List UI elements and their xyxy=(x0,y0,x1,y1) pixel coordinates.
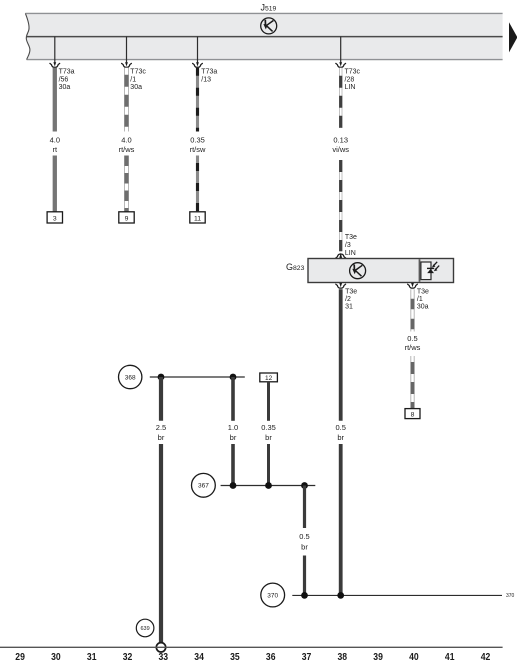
continuation arrow (right) xyxy=(509,22,517,52)
svg-text:37: 37 xyxy=(302,652,312,661)
svg-text:31: 31 xyxy=(345,304,353,311)
svg-text:9: 9 xyxy=(125,216,129,223)
svg-text:32: 32 xyxy=(123,652,133,661)
wire 0.5 br from G823 (solid) xyxy=(339,289,343,421)
svg-text:42: 42 xyxy=(481,652,491,661)
ground node 370 xyxy=(261,583,285,607)
svg-text:38: 38 xyxy=(338,652,348,661)
connection box 3 xyxy=(47,212,62,223)
svg-text:3: 3 xyxy=(53,216,57,223)
svg-text:rt/sw: rt/sw xyxy=(190,145,206,154)
svg-text:39: 39 xyxy=(373,652,383,661)
svg-text:br: br xyxy=(337,433,344,442)
svg-text:T3e: T3e xyxy=(345,289,357,296)
bus bar J519 xyxy=(25,13,502,59)
ground node 639 xyxy=(136,619,154,637)
svg-text:rt: rt xyxy=(53,145,58,154)
junction on 367 rail (track 35) xyxy=(230,482,237,489)
svg-text:30a: 30a xyxy=(59,84,71,91)
svg-text:br: br xyxy=(230,433,237,442)
connection box 12 xyxy=(260,373,278,382)
svg-text:br: br xyxy=(301,543,308,552)
bus bar top border xyxy=(25,12,502,14)
wire 1.0 br (solid) xyxy=(231,377,235,421)
svg-text:0.5: 0.5 xyxy=(299,532,309,541)
junction on 368 rail (track 33) xyxy=(158,374,165,381)
wire stub from bus, track 34 xyxy=(197,37,199,63)
svg-text:30a: 30a xyxy=(417,304,429,311)
wire 0.5 rt/ws (dashed) xyxy=(411,289,415,408)
svg-text:/3: /3 xyxy=(345,242,351,249)
svg-text:0.13: 0.13 xyxy=(333,136,348,145)
wire 367 rail xyxy=(221,485,316,487)
svg-text:36: 36 xyxy=(266,652,276,661)
svg-text:0.35: 0.35 xyxy=(190,136,205,145)
svg-text:/1: /1 xyxy=(130,76,136,83)
svg-text:0.5: 0.5 xyxy=(407,334,417,343)
terminal T73c/28 LIN xyxy=(336,62,346,67)
connection box 11 xyxy=(190,212,205,223)
svg-text:639: 639 xyxy=(141,626,150,632)
svg-text:/56: /56 xyxy=(59,76,69,83)
terminal T3e/2 (below G823) xyxy=(336,283,346,288)
wire 4.0 rt/ws (dashed) xyxy=(124,68,128,212)
svg-text:2.5: 2.5 xyxy=(156,423,166,432)
ground node 368 xyxy=(119,365,142,388)
svg-text:/13: /13 xyxy=(201,76,211,83)
svg-text:0.5: 0.5 xyxy=(335,423,345,432)
connection box 9 xyxy=(119,212,134,223)
svg-text:12: 12 xyxy=(265,375,273,382)
G823 sensor cell box xyxy=(421,262,431,280)
svg-text:30: 30 xyxy=(51,652,61,661)
terminal T73c/1 xyxy=(122,62,132,67)
svg-text:29: 29 xyxy=(15,652,25,661)
svg-text:368: 368 xyxy=(125,374,136,381)
wire 0.35 br (solid) xyxy=(267,382,270,421)
terminal T3e/1 (below G823) xyxy=(408,283,418,288)
wire 0.35 rt/sw (dashed) xyxy=(196,68,199,212)
G823 internal divider xyxy=(419,259,421,282)
wire stub from bus, track 30 xyxy=(54,37,56,63)
track numbers xyxy=(15,652,490,661)
svg-text:rt/ws: rt/ws xyxy=(405,343,421,352)
wire 370 rail xyxy=(292,594,502,596)
photodiode symbol xyxy=(427,262,439,273)
wire stub from bus, track 32 xyxy=(126,37,128,63)
junction on 368 rail (track 35) xyxy=(230,374,237,381)
wire 4.0 rt (solid) xyxy=(53,68,57,132)
svg-text:4.0: 4.0 xyxy=(50,136,60,145)
junction on 367 rail (track 37) xyxy=(301,482,308,489)
bus bar bottom border xyxy=(27,59,503,61)
svg-text:0.35: 0.35 xyxy=(261,423,276,432)
svg-text:41: 41 xyxy=(445,652,455,661)
wire 368 rail xyxy=(150,376,245,378)
junction on 367 rail (track 36) xyxy=(265,482,272,489)
svg-text:370: 370 xyxy=(267,592,278,599)
ground terminal (open circle) xyxy=(156,643,165,652)
svg-text:/1: /1 xyxy=(417,296,423,303)
svg-text:LIN: LIN xyxy=(345,250,356,257)
svg-text:vi/ws: vi/ws xyxy=(332,145,349,154)
svg-text:30a: 30a xyxy=(130,84,142,91)
svg-text:8: 8 xyxy=(411,411,415,418)
svg-text:LIN: LIN xyxy=(345,84,356,91)
ground node 367 xyxy=(192,473,216,497)
svg-text:/2: /2 xyxy=(345,296,351,303)
sensor G823 body xyxy=(308,259,454,283)
svg-text:11: 11 xyxy=(194,216,201,223)
junction on 370 rail (track 37) xyxy=(301,592,308,599)
svg-text:1.0: 1.0 xyxy=(228,423,238,432)
svg-text:G823: G823 xyxy=(286,262,305,272)
junction on 370 rail (track 38) xyxy=(337,592,344,599)
svg-text:34: 34 xyxy=(194,652,204,661)
terminal T73a/13 xyxy=(193,62,203,67)
terminal T3e/3 (into G823, arrow up) xyxy=(336,253,346,259)
svg-text:T73c: T73c xyxy=(345,69,361,76)
svg-text:T3e: T3e xyxy=(345,234,357,241)
circled K (G823 diagnostic symbol) xyxy=(350,263,366,279)
svg-text:T73a: T73a xyxy=(201,69,217,76)
svg-text:31: 31 xyxy=(87,652,97,661)
connection box 8 xyxy=(405,409,420,419)
wire 0.5 br (track 37) xyxy=(303,486,306,529)
bus bar torn left edge xyxy=(25,13,30,59)
svg-text:J519: J519 xyxy=(261,3,277,13)
svg-text:33: 33 xyxy=(159,652,169,661)
terminal T73a/56 xyxy=(50,62,60,67)
svg-text:367: 367 xyxy=(198,483,209,490)
bus bar inner line xyxy=(26,36,502,38)
svg-text:4.0: 4.0 xyxy=(121,136,131,145)
wire 0.13 vi/ws (dashed) xyxy=(339,68,342,251)
wire stub from bus, track 38 xyxy=(340,37,342,63)
svg-text:T73a: T73a xyxy=(59,69,75,76)
svg-text:35: 35 xyxy=(230,652,240,661)
svg-text:rt/ws: rt/ws xyxy=(119,145,135,154)
wire 2.5 br (solid) xyxy=(159,377,163,421)
circled K (bus diagnostic symbol) xyxy=(261,18,277,34)
svg-text:T73c: T73c xyxy=(130,69,146,76)
svg-text:br: br xyxy=(265,433,272,442)
bottom rail xyxy=(0,646,503,648)
svg-text:br: br xyxy=(158,433,165,442)
svg-text:370: 370 xyxy=(506,593,515,599)
svg-text:/28: /28 xyxy=(345,76,355,83)
svg-text:40: 40 xyxy=(409,652,419,661)
svg-text:T3e: T3e xyxy=(417,289,429,296)
